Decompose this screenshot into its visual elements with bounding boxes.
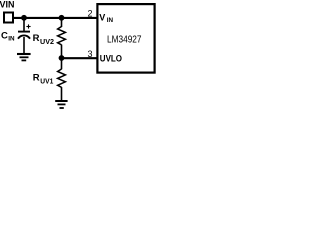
- wire CIN top lead: [23, 18, 25, 31]
- svg-text:IN: IN: [8, 36, 15, 43]
- wire top rail from terminal to pin 2: [13, 17, 97, 19]
- svg-text:3: 3: [88, 49, 93, 59]
- ground symbol under CIN: [17, 54, 31, 60]
- ground symbol under RUV1: [55, 101, 67, 108]
- svg-text:UV1: UV1: [40, 79, 53, 86]
- junction dot at CIN: [21, 15, 27, 21]
- capacitor CIN: [18, 32, 30, 39]
- svg-text:R: R: [33, 73, 40, 84]
- resistor RUV1 label: [33, 73, 54, 86]
- svg-text:V: V: [99, 13, 105, 23]
- junction dot at UVLO node: [59, 55, 65, 61]
- svg-text:LM34927: LM34927: [107, 35, 142, 46]
- resistor RUV1: [58, 58, 66, 101]
- junction dot at RUV2 top: [59, 15, 65, 21]
- input terminal square: [4, 13, 13, 23]
- svg-text:UV2: UV2: [40, 39, 54, 46]
- resistor RUV2: [58, 18, 66, 58]
- op-amp U1 LM34927 box: [97, 4, 154, 73]
- resistor RUV2 label: [33, 33, 55, 46]
- svg-text:IN: IN: [107, 17, 114, 24]
- wire CIN bottom lead: [23, 37, 25, 54]
- svg-text:VIN: VIN: [0, 0, 15, 9]
- wire UVLO node to pin 3: [62, 57, 98, 59]
- svg-text:R: R: [33, 33, 40, 44]
- capacitor CIN value label: [1, 31, 15, 43]
- capacitor CIN polarity plus: [26, 24, 30, 28]
- svg-text:UVLO: UVLO: [100, 54, 122, 65]
- pin VIN label inside box: [99, 13, 113, 25]
- svg-text:C: C: [1, 31, 8, 42]
- svg-text:2: 2: [88, 8, 93, 18]
